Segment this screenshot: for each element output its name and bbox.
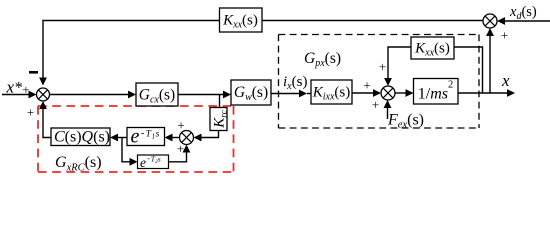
wire: e^-T1s to C(s)Q(s) bbox=[110, 134, 127, 142]
svg-text:ix(s): ix(s) bbox=[283, 74, 307, 92]
svg-text:+: + bbox=[22, 82, 29, 97]
svg-text:+: + bbox=[177, 141, 184, 156]
wire: feedback from S4 through Kxx(s) down into S1 bbox=[39, 21, 483, 86]
wire: Gw(s) to Kixx(s) bbox=[271, 90, 311, 98]
sign − (feedback into S1) bbox=[29, 71, 38, 74]
svg-text:1: 1 bbox=[152, 133, 156, 141]
svg-text:xd(s): xd(s) bbox=[509, 4, 537, 22]
svg-text:+: + bbox=[379, 59, 386, 74]
svg-text:+: + bbox=[363, 77, 370, 92]
block Kixx(s) bbox=[311, 80, 352, 104]
wire: tap down into Krc bbox=[219, 95, 221, 108]
block 1/ms2 bbox=[414, 79, 459, 105]
wire: tap up to inner Kxx(s) bbox=[454, 47, 483, 93]
wire: Gcx(s) to Gw(s) bbox=[178, 91, 231, 99]
wire: Kixx(s) to summing junction S2 bbox=[352, 89, 381, 97]
summing junction S4 (top right) bbox=[483, 14, 497, 28]
wire: S3 to e^-T1s bbox=[165, 134, 180, 142]
block Gcx(s) bbox=[136, 83, 178, 106]
block e^-T2s bbox=[138, 154, 169, 170]
wire: Krc to summing junction S3 bbox=[194, 131, 219, 142]
block Kxx(s) (top) bbox=[220, 8, 263, 32]
svg-text:C(s)Q(s): C(s)Q(s) bbox=[54, 129, 110, 146]
summing junction S2 (inner) bbox=[381, 86, 395, 100]
svg-text:e: e bbox=[131, 125, 140, 147]
svg-text:x*: x* bbox=[6, 78, 23, 97]
dashed enclosure G_xRC(s) (red) bbox=[38, 106, 234, 172]
wire: Fex(s) into S2 bottom bbox=[384, 100, 392, 119]
svg-text:+: + bbox=[27, 105, 34, 120]
svg-text:+: + bbox=[501, 28, 508, 43]
svg-text:x: x bbox=[501, 71, 510, 90]
block e^-T1s bbox=[127, 125, 165, 147]
svg-text:s: s bbox=[156, 130, 160, 140]
wire: output tap up to summing junction S4 (top right) bbox=[486, 28, 494, 93]
svg-text:+: + bbox=[372, 97, 379, 112]
wire: e^-T2s up into S3 bottom bbox=[169, 145, 191, 162]
block C(s)Q(s) bbox=[51, 128, 110, 146]
block Krc (vertical) bbox=[210, 108, 230, 131]
block Kxx(s) (inner) bbox=[411, 37, 454, 59]
svg-text:e: e bbox=[140, 155, 146, 170]
wire: x* input into summing junction S1 bbox=[2, 91, 37, 99]
wire: output x bbox=[458, 89, 515, 97]
wire: inner Kxx(s) into S2 top bbox=[384, 47, 411, 86]
svg-text:Gw(s): Gw(s) bbox=[234, 84, 268, 103]
wire: tap to e^-T2s bbox=[122, 138, 138, 166]
wire: S1 to Gcx(s) bbox=[50, 91, 137, 99]
wire: S2 to 1/ms2 bbox=[395, 89, 414, 97]
dashed enclosure G_px(s) bbox=[279, 35, 480, 129]
svg-text:+: + bbox=[177, 118, 184, 133]
summing junction S1 (left) bbox=[37, 88, 50, 101]
svg-text:s: s bbox=[158, 155, 161, 164]
block Gw(s) bbox=[231, 80, 271, 105]
wire: xd(s) input into S4 bbox=[497, 17, 550, 25]
svg-text:-: - bbox=[141, 128, 144, 139]
summing junction S3 (red box) bbox=[180, 131, 194, 145]
wire: C(s)Q(s) up into S1 bottom bbox=[39, 101, 51, 138]
